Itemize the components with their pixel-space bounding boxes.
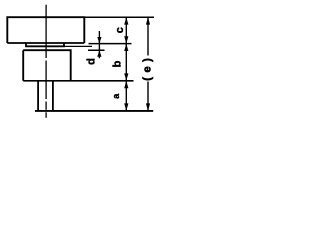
flange bottom extension line xyxy=(89,43,132,45)
dim line e upper xyxy=(147,17,149,55)
body top extension line xyxy=(88,49,105,51)
washer under flange xyxy=(26,43,64,46)
arrow a top xyxy=(124,81,128,88)
dim line a xyxy=(125,81,127,111)
svg-text:(e): (e) xyxy=(142,54,154,81)
arrow b top xyxy=(124,44,128,51)
dim line e lower xyxy=(147,82,149,111)
dim line b xyxy=(125,44,127,81)
dim line d xyxy=(98,31,100,58)
centerline xyxy=(45,5,47,118)
arrow c top xyxy=(124,17,128,24)
svg-text:c: c xyxy=(114,27,126,33)
flange outline xyxy=(7,17,84,43)
stem left wire xyxy=(37,81,39,111)
arrow d upper (points down) xyxy=(97,37,101,44)
flange top extension line xyxy=(84,16,154,18)
dim line c xyxy=(125,17,127,43)
arrow c bottom xyxy=(124,36,128,43)
svg-text:d: d xyxy=(85,58,97,65)
flange bottom edge xyxy=(7,42,84,44)
stem right wire xyxy=(52,81,54,111)
arrow e bottom xyxy=(146,103,150,110)
arrow d lower (points up) xyxy=(97,50,101,57)
body bottom edge + extension xyxy=(23,80,133,82)
arrow e top xyxy=(146,17,150,24)
baseline xyxy=(35,110,153,112)
svg-text:b: b xyxy=(112,60,124,67)
arrow a bottom xyxy=(124,103,128,110)
body outline xyxy=(23,50,70,81)
arrow b bottom xyxy=(124,73,128,80)
washer bottom extension line xyxy=(64,45,92,47)
